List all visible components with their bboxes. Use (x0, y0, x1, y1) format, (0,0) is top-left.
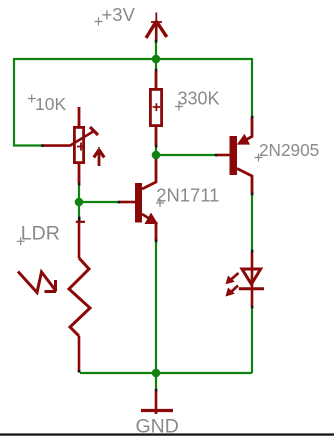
label LDR cross (17, 237, 25, 245)
resistor R330K body (150, 89, 161, 125)
pin tick junction1 below (155, 69, 158, 72)
pin tick 330K bottom (155, 145, 158, 148)
potentiometer 10K origin cross (77, 143, 85, 151)
resistor R330K pin bottom (155, 126, 158, 146)
transistor Q1 2N1711 collector (142, 159, 156, 189)
svg-text:+3V: +3V (102, 4, 136, 25)
wire junction3 down to LDR (78, 202, 80, 217)
diode LED cathode bar (239, 287, 264, 290)
pin tick pot wiper (41, 144, 44, 147)
wire junction2 to PNP base (156, 154, 216, 156)
node junction2 (152, 151, 161, 160)
pin tick PNP collector (251, 193, 254, 196)
diode LED pin top (251, 252, 254, 269)
wire top rail (13, 58, 252, 60)
pin tick NPN base (118, 201, 121, 204)
potentiometer 10K pin top (78, 107, 81, 127)
pin tick NPN emitter (155, 240, 158, 243)
svg-text:10K: 10K (35, 94, 66, 114)
node junction1 (152, 55, 161, 64)
potentiometer 10K adjust arrow (94, 147, 104, 166)
label 2N2905 cross (255, 154, 263, 162)
potentiometer 10K wiper lead (43, 131, 94, 146)
pin tick +3V (155, 40, 158, 43)
pin tick LDR bottom (78, 370, 81, 373)
svg-text:330K: 330K (178, 89, 220, 109)
pin tick LED bottom (251, 306, 254, 309)
label 2N1711 cross (156, 199, 164, 207)
wire PNP collector down (251, 195, 253, 250)
node junction3 (75, 198, 84, 207)
wire NPN base (79, 201, 119, 203)
transistor Q1 2N1711 emitter arrowhead (145, 213, 159, 225)
transistor Q2 2N2905 base pin (217, 154, 230, 157)
pin tick GND (155, 389, 158, 392)
svg-text:2N1711: 2N1711 (156, 185, 219, 206)
label +3V cross (95, 18, 103, 26)
photoresistor LDR pin top tick (76, 221, 85, 223)
ground symbol bar (141, 409, 173, 412)
wire right rail down (251, 58, 253, 117)
wire GND stub (155, 373, 157, 390)
pin tick LED top (251, 250, 254, 253)
wire LED bottom down (251, 308, 253, 373)
label 10K cross (28, 95, 36, 103)
label 330K cross (175, 103, 183, 111)
pin tick LDR top (78, 217, 81, 223)
node junction4 (152, 369, 161, 378)
potentiometer 10K body (74, 127, 83, 162)
photoresistor LDR pin top (78, 221, 81, 258)
diode LED light arrow 2 (226, 286, 239, 297)
transistor Q2 2N2905 emitter arrowhead (237, 134, 250, 145)
wire NPN emitter down (155, 242, 157, 373)
transistor Q2 2N2905 bar (230, 136, 238, 175)
svg-text:2N2905: 2N2905 (259, 140, 319, 160)
potentiometer 10K pin bottom (78, 163, 81, 183)
pin tick right corner (251, 116, 254, 119)
diode LED triangle (242, 269, 261, 284)
wire R330K to junction2 (155, 147, 157, 155)
transistor Q1 2N1711 emitter (142, 214, 157, 241)
resistor R330K origin cross (153, 103, 161, 111)
wire junction1 to R330K (155, 59, 157, 69)
photoresistor LDR light arrow (18, 272, 56, 293)
transistor Q2 2N2905 emitter (239, 118, 252, 144)
pin tick pot bottom (78, 183, 81, 186)
wire +3V stub (155, 41, 157, 59)
potentiometer 10K wiper T-bar (90, 127, 98, 135)
window bottom border (0, 433, 334, 435)
resistor R330K pin top (155, 71, 158, 89)
diode LED through lead (251, 269, 254, 306)
wire bottom rail (80, 372, 252, 374)
ground symbol stem (155, 391, 158, 414)
power +3V symbol (146, 13, 167, 42)
svg-text:LDR: LDR (21, 223, 60, 245)
transistor Q2 2N2905 collector (237, 169, 252, 195)
photoresistor LDR pin bottom (78, 336, 81, 372)
wire left rail down (14, 58, 41, 146)
diode LED light arrow 1 (226, 273, 239, 284)
transistor Q1 2N1711 base pin (119, 201, 135, 204)
photoresistor LDR zigzag body (69, 258, 90, 336)
wire pot bottom to junction3 (78, 185, 80, 202)
pin tick PNP base (215, 154, 218, 157)
wire junction2 down to NPN collector (155, 155, 157, 160)
transistor Q1 2N1711 bar (135, 183, 142, 223)
